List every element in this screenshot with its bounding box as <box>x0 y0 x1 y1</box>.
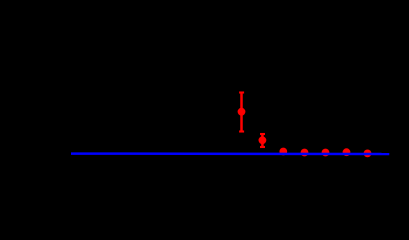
blue baseline (drawn on top of points) <box>71 152 389 155</box>
data point 6: marker <box>343 148 351 156</box>
data point 3: marker <box>279 148 287 156</box>
data point 5: marker <box>322 149 330 157</box>
data point 4: marker <box>301 149 309 157</box>
data point 7: marker <box>364 150 372 158</box>
data point 2: error bar <box>260 134 265 147</box>
data point 1: marker <box>238 108 246 116</box>
data point 1: error bar <box>239 93 244 132</box>
data point 2: marker <box>259 136 267 144</box>
